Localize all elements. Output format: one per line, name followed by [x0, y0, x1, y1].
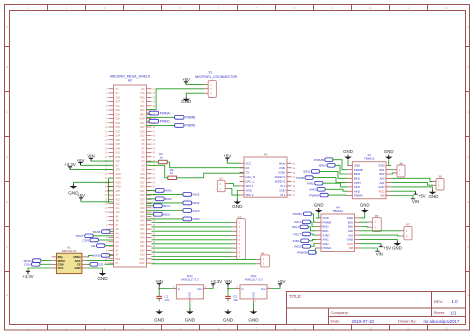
- wire MISO: [87, 255, 93, 257]
- wire: [320, 171, 348, 178]
- wire: [333, 160, 347, 170]
- net AIN2 flag: [147, 193, 183, 195]
- svg-text:D10: D10: [140, 135, 145, 138]
- svg-text:D: D: [6, 156, 8, 159]
- svg-text:X2: X2: [219, 176, 223, 180]
- svg-text:Date:: Date:: [331, 319, 341, 324]
- svg-text:1k: 1k: [159, 156, 163, 160]
- svg-text:IND1: IND1: [293, 239, 300, 243]
- svg-text:MISO: MISO: [74, 255, 82, 259]
- svg-text:VIN: VIN: [412, 199, 419, 204]
- wire: [110, 254, 114, 256]
- svg-text:D23: D23: [140, 173, 145, 176]
- svg-text:IND2: IND2: [294, 245, 301, 249]
- svg-text:D35: D35: [140, 198, 145, 201]
- svg-text:AIN2: AIN2: [193, 193, 200, 197]
- svg-text:+3.3V: +3.3V: [22, 274, 33, 279]
- svg-text:1k: 1k: [170, 171, 174, 175]
- wire: [90, 160, 92, 162]
- svg-text:Out: Out: [197, 287, 202, 291]
- svg-text:A2: A2: [128, 79, 132, 83]
- svg-text:Sheet:: Sheet:: [434, 310, 446, 315]
- svg-text:GND: GND: [392, 246, 402, 251]
- svg-text:D47: D47: [140, 228, 145, 231]
- svg-text:GND: GND: [74, 266, 80, 270]
- svg-text:BIN1: BIN1: [304, 170, 311, 174]
- wire: [328, 194, 347, 196]
- wire: [360, 248, 378, 251]
- svg-text:TX0: TX0: [140, 92, 145, 95]
- svg-text:B01: B01: [348, 220, 353, 224]
- capacitor C2 10u: [225, 296, 231, 298]
- wire: [316, 213, 319, 218]
- svg-text:D32: D32: [116, 130, 121, 133]
- svg-text:IO 2: IO 2: [280, 184, 286, 188]
- svg-text:PWMB: PWMB: [185, 116, 195, 120]
- svg-text:GND: GND: [181, 99, 192, 104]
- svg-text:D29: D29: [140, 186, 145, 189]
- svg-text:BIN1: BIN1: [165, 197, 172, 201]
- svg-text:Company:: Company:: [331, 310, 349, 315]
- svg-text:D52: D52: [140, 249, 145, 252]
- wires A2 to X4: [152, 258, 257, 260]
- svg-text:ARDUINO_MEGA_SHIELD: ARDUINO_MEGA_SHIELD: [110, 74, 151, 78]
- svg-text:STBY: STBY: [323, 233, 330, 237]
- wire: [81, 164, 114, 166]
- svg-text:BIN2: BIN2: [323, 225, 330, 229]
- svg-text:GND: GND: [232, 204, 243, 209]
- svg-text:A11: A11: [116, 207, 121, 210]
- A2 pins right: [147, 88, 152, 90]
- wire: [360, 239, 398, 241]
- net PWMC flag: [147, 120, 150, 122]
- A2 pins left: [109, 88, 114, 90]
- svg-text:CSN: CSN: [24, 263, 31, 267]
- wire: [73, 182, 108, 184]
- wire: [323, 183, 348, 187]
- wire: [147, 165, 168, 178]
- svg-text:D26: D26: [116, 118, 121, 121]
- wire: [177, 173, 244, 178]
- svg-text:GND: GND: [354, 164, 360, 168]
- svg-text:TRAB: TRAB: [296, 176, 304, 180]
- svg-text:SCK: SCK: [75, 259, 81, 263]
- junction: [227, 288, 229, 290]
- svg-text:ADKEY2: ADKEY2: [274, 175, 285, 179]
- wire: [227, 161, 239, 163]
- wire: [40, 263, 52, 265]
- svg-text:PWMD: PWMD: [185, 124, 196, 128]
- svg-text:GND: GND: [139, 262, 145, 265]
- wire B02: [391, 173, 394, 174]
- svg-text:INC2: INC2: [292, 225, 299, 229]
- svg-text:+5V: +5V: [278, 279, 286, 284]
- svg-text:SCL: SCL: [140, 105, 145, 108]
- net INC2 flag: [147, 210, 183, 212]
- svg-text:D27: D27: [140, 181, 145, 184]
- svg-text:TRCT: TRCT: [293, 232, 301, 236]
- wire B02: [360, 226, 370, 229]
- svg-text:+3.3V: +3.3V: [211, 279, 223, 284]
- svg-text:1/1: 1/1: [451, 310, 458, 315]
- svg-text:VCC: VCC: [379, 189, 385, 193]
- svg-text:CSN: CSN: [82, 238, 89, 242]
- svg-text:5V: 5V: [116, 164, 119, 167]
- svg-text:REF: REF: [116, 258, 121, 261]
- svg-text:INC1: INC1: [163, 204, 170, 208]
- svg-text:10u: 10u: [233, 298, 238, 302]
- wire B01: [391, 169, 394, 171]
- svg-text:INC1: INC1: [294, 220, 301, 224]
- svg-text:GND: GND: [246, 189, 252, 193]
- net BIN2 flag: [147, 202, 183, 204]
- svg-text:USB+: USB+: [278, 171, 286, 175]
- svg-text:B02: B02: [380, 172, 385, 176]
- wire: [28, 268, 52, 271]
- wire: [313, 178, 347, 183]
- svg-text:VIN: VIN: [116, 105, 120, 108]
- svg-text:C: C: [467, 111, 469, 114]
- svg-text:G: G: [467, 294, 469, 297]
- svg-text:IO 1: IO 1: [280, 193, 286, 197]
- svg-text:PWMD: PWMD: [297, 251, 308, 255]
- X7 pins: [401, 230, 404, 232]
- svg-text:VIN: VIN: [376, 252, 383, 257]
- ground GND (C2): [227, 309, 229, 311]
- svg-text:2019-07-10: 2019-07-10: [352, 319, 375, 324]
- svg-text:GND: GND: [347, 216, 353, 220]
- svg-text:Drawn By:: Drawn By:: [398, 319, 416, 324]
- svg-text:GND: GND: [116, 177, 122, 180]
- svg-text:VCC: VCC: [347, 242, 353, 246]
- svg-text:PWMC: PWMC: [160, 120, 171, 124]
- wire: [105, 245, 114, 247]
- svg-text:A01: A01: [380, 181, 385, 185]
- svg-text:D33: D33: [140, 194, 145, 197]
- svg-text:GND: GND: [185, 318, 196, 323]
- svg-text:GND: GND: [139, 118, 145, 121]
- svg-text:+5V: +5V: [384, 245, 392, 250]
- svg-text:D31: D31: [140, 190, 145, 193]
- net PWMA flag: [147, 112, 150, 114]
- svg-text:D12: D12: [140, 126, 145, 129]
- wire A01: [360, 234, 401, 237]
- svg-text:G: G: [6, 294, 8, 297]
- svg-text:AIN1: AIN1: [354, 185, 361, 189]
- svg-text:BIN2: BIN2: [319, 164, 326, 168]
- svg-text:DAC_L: DAC_L: [246, 180, 255, 184]
- svg-text:D53: D53: [140, 254, 145, 257]
- wires A2 to X3: [152, 222, 233, 224]
- wire: [311, 234, 317, 235]
- capacitor C1 10u: [156, 296, 162, 298]
- svg-text:VCC: VCC: [58, 266, 64, 270]
- svg-text:D25: D25: [140, 177, 145, 180]
- net AIN1 flag: [147, 189, 156, 191]
- svg-text:AMS1117 5.0: AMS1117 5.0: [245, 278, 263, 282]
- svg-text:RX: RX: [246, 166, 250, 170]
- svg-text:A02: A02: [380, 177, 385, 181]
- svg-text:MOSI: MOSI: [58, 259, 65, 263]
- wire SCK to A2: [87, 260, 114, 262]
- svg-text:USB-: USB-: [279, 166, 286, 170]
- svg-text:IO: IO: [116, 262, 119, 265]
- svg-text:GND: GND: [116, 186, 122, 189]
- svg-text:A15: A15: [116, 190, 121, 193]
- wire: [70, 169, 114, 171]
- svg-text:PWMA: PWMA: [160, 111, 171, 115]
- svg-text:ADKEY1: ADKEY1: [274, 180, 285, 184]
- svg-text:D44: D44: [116, 156, 121, 159]
- svg-text:D50: D50: [140, 241, 145, 244]
- svg-text:BIN1: BIN1: [354, 177, 361, 181]
- wire: [208, 286, 213, 288]
- svg-text:A3: A3: [264, 153, 268, 157]
- svg-text:CE: CE: [99, 263, 103, 267]
- net BIN1 flag: [147, 198, 156, 200]
- A5 pins: [316, 217, 321, 219]
- svg-text:SPK 2: SPK 2: [246, 193, 254, 197]
- wire: [167, 162, 244, 168]
- svg-text:D45: D45: [140, 220, 145, 223]
- A3 pins: [240, 162, 245, 164]
- wire: [311, 244, 317, 247]
- wire gnd bus: [108, 178, 110, 202]
- wire: [309, 239, 316, 240]
- X3 pins: [233, 222, 237, 224]
- svg-text:D13: D13: [140, 122, 145, 125]
- svg-text:NRF24L01: NRF24L01: [62, 249, 77, 253]
- svg-text:Out: Out: [261, 287, 266, 291]
- svg-text:D38: D38: [116, 143, 121, 146]
- svg-text:GND: GND: [347, 238, 353, 242]
- svg-text:C: C: [6, 111, 8, 114]
- svg-text:IND1: IND1: [163, 213, 170, 217]
- svg-text:BIN2: BIN2: [354, 172, 361, 176]
- wire: [237, 191, 239, 200]
- svg-text:D37: D37: [140, 203, 145, 206]
- A4 pins: [347, 164, 352, 166]
- X2 pins: [225, 183, 228, 185]
- svg-text:AIN2: AIN2: [323, 242, 330, 246]
- svg-text:GND: GND: [384, 149, 394, 154]
- svg-text:D41: D41: [140, 211, 145, 214]
- wire: [389, 159, 391, 165]
- svg-text:D46: D46: [140, 224, 145, 227]
- wire: [227, 289, 229, 295]
- svg-text:B01: B01: [380, 168, 385, 172]
- wire: [315, 248, 318, 252]
- wire: [360, 243, 382, 245]
- svg-text:GND: GND: [323, 216, 329, 220]
- svg-text:TB6612: TB6612: [332, 209, 343, 213]
- svg-text:MOSI: MOSI: [92, 254, 100, 258]
- svg-text:D28: D28: [116, 122, 121, 125]
- wire: [312, 214, 316, 222]
- svg-text:D30: D30: [116, 126, 121, 129]
- svg-text:D34: D34: [116, 135, 121, 138]
- svg-text:D11: D11: [140, 130, 145, 133]
- wire: [87, 263, 90, 265]
- svg-text:D43: D43: [140, 215, 145, 218]
- svg-text:+5V: +5V: [418, 193, 426, 198]
- svg-text:D51: D51: [140, 245, 145, 248]
- svg-text:IRQ: IRQ: [58, 255, 64, 259]
- svg-text:PWMC: PWMC: [293, 212, 304, 216]
- svg-text:PWMB: PWMB: [314, 158, 324, 162]
- svg-text:GND: GND: [343, 149, 353, 154]
- X4 pins: [256, 258, 261, 260]
- svg-text:AIN1: AIN1: [307, 182, 314, 186]
- svg-text:GND: GND: [378, 164, 384, 168]
- svg-text:RX0: RX0: [140, 96, 145, 99]
- svg-text:5V: 5V: [116, 88, 119, 91]
- ground GND (DA2): [253, 303, 255, 310]
- svg-text:D40: D40: [116, 147, 121, 150]
- svg-text:A12: A12: [116, 203, 121, 206]
- wire A02: [360, 230, 401, 232]
- svg-text:GND: GND: [154, 318, 165, 323]
- wire: [110, 231, 114, 233]
- wire: [105, 263, 114, 265]
- svg-text:GND: GND: [223, 318, 234, 323]
- svg-text:IND2: IND2: [193, 217, 200, 221]
- svg-text:AIN1: AIN1: [165, 189, 172, 193]
- svg-text:NEOPIXEL_COONNECTOR: NEOPIXEL_COONNECTOR: [195, 75, 238, 79]
- svg-text:PWMA: PWMA: [323, 246, 332, 250]
- svg-text:D36: D36: [116, 139, 121, 142]
- net CSN flag: [90, 238, 99, 242]
- svg-text:A14: A14: [116, 194, 121, 197]
- svg-text:INC2: INC2: [193, 209, 200, 213]
- net MOSI flag: [101, 254, 110, 258]
- svg-text:SPK 1: SPK 1: [246, 184, 254, 188]
- svg-text:PWMA: PWMA: [354, 194, 363, 198]
- svg-text:CSN: CSN: [58, 263, 64, 267]
- X8 pins: [433, 180, 436, 182]
- svg-text:AR3: AR3: [140, 113, 145, 116]
- X1 pins: [205, 84, 209, 86]
- svg-text:3V3: 3V3: [116, 96, 121, 99]
- wire: [391, 196, 413, 199]
- net PWMD flag: [147, 124, 175, 126]
- wire: [81, 201, 114, 202]
- wire B01: [360, 221, 370, 223]
- svg-text:A13: A13: [116, 198, 121, 201]
- svg-text:AIN1: AIN1: [323, 238, 330, 242]
- svg-text:A10: A10: [116, 211, 121, 214]
- svg-text:GND: GND: [360, 203, 370, 208]
- ground GND (C1): [158, 309, 160, 311]
- svg-text:10u: 10u: [165, 298, 170, 302]
- X5 pins: [369, 221, 372, 223]
- svg-text:B02: B02: [348, 225, 353, 229]
- svg-text:GND: GND: [97, 276, 108, 281]
- wire: [147, 161, 159, 163]
- svg-text:VIN: VIN: [116, 160, 120, 163]
- svg-text:D22: D22: [116, 109, 121, 112]
- svg-text:5V: 5V: [116, 92, 119, 95]
- net IND1 flag: [147, 213, 154, 215]
- wire: [325, 189, 347, 191]
- svg-text:A01: A01: [348, 233, 353, 237]
- svg-text:VM: VM: [349, 246, 354, 250]
- net MOSI flag (A1): [33, 259, 42, 263]
- wire: [228, 286, 236, 288]
- svg-text:D48: D48: [140, 232, 145, 235]
- svg-text:STBY: STBY: [354, 181, 361, 185]
- svg-text:AMS1117 3.3: AMS1117 3.3: [181, 278, 199, 282]
- wire: [186, 93, 204, 97]
- net IND2 flag: [147, 218, 183, 220]
- ground GND (DA1): [189, 303, 191, 310]
- svg-text:TB6612: TB6612: [364, 157, 375, 161]
- junction: [108, 181, 110, 183]
- svg-text:GND: GND: [279, 189, 285, 193]
- ground GND (left of A2): [72, 184, 74, 186]
- svg-text:CE: CE: [77, 263, 81, 267]
- junction: [158, 288, 160, 290]
- wire: [311, 222, 317, 227]
- title block: [287, 292, 466, 325]
- svg-text:1.0: 1.0: [452, 299, 459, 304]
- wire A02: [391, 178, 433, 181]
- wire: [391, 190, 416, 192]
- svg-text:GND: GND: [116, 173, 122, 176]
- svg-text:A02: A02: [348, 229, 353, 233]
- net CSN flag (A1): [32, 263, 41, 267]
- svg-text:BIN2: BIN2: [193, 201, 200, 205]
- wire: [93, 235, 113, 237]
- wire: [308, 227, 316, 231]
- svg-text:AIN2: AIN2: [354, 189, 361, 193]
- svg-text:GND: GND: [429, 194, 439, 199]
- wire: [158, 289, 160, 295]
- wire: [98, 239, 113, 241]
- svg-text:D39: D39: [140, 207, 145, 210]
- svg-text:TRCT: TRCT: [75, 234, 83, 238]
- svg-text:VCC: VCC: [246, 161, 252, 165]
- svg-text:X1: X1: [208, 70, 212, 74]
- svg-text:X8: X8: [438, 175, 442, 179]
- svg-text:D49: D49: [140, 237, 145, 240]
- svg-text:TX: TX: [246, 171, 250, 175]
- wire: [346, 159, 349, 165]
- svg-text:GND: GND: [378, 185, 384, 189]
- net PWMB flag: [147, 116, 175, 118]
- svg-text:AIN2: AIN2: [309, 188, 316, 192]
- svg-text:PWMB: PWMB: [354, 168, 363, 172]
- svg-text:PWMB: PWMB: [323, 220, 332, 224]
- wire: [360, 213, 365, 218]
- svg-text:D: D: [467, 156, 469, 159]
- svg-text:RST: RST: [116, 101, 121, 104]
- wire: [391, 187, 433, 190]
- net TRCT flag: [85, 234, 94, 238]
- svg-text:GND: GND: [139, 258, 145, 261]
- svg-text:Busy: Busy: [279, 161, 286, 165]
- svg-text:3V3: 3V3: [116, 169, 121, 172]
- svg-text:GND: GND: [116, 181, 122, 184]
- svg-text:DAC_R: DAC_R: [246, 175, 255, 179]
- svg-text:TRAB: TRAB: [92, 230, 100, 234]
- wire SPK1: [228, 184, 239, 186]
- wire: [186, 84, 205, 86]
- net CE flag: [97, 244, 106, 248]
- X6 pins: [394, 169, 397, 171]
- svg-text:SDA: SDA: [140, 109, 145, 112]
- svg-text:D42: D42: [116, 152, 121, 155]
